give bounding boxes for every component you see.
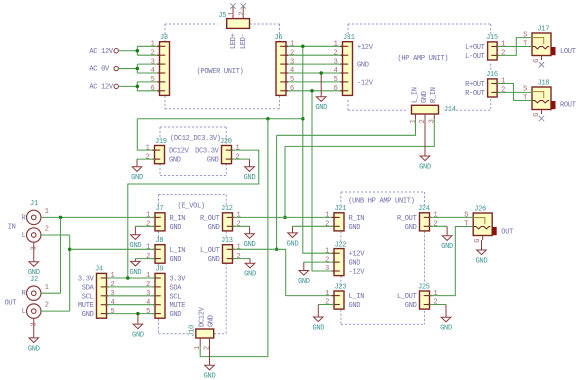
svg-text:J6: J6 xyxy=(275,34,283,42)
svg-text:J20: J20 xyxy=(220,138,232,146)
svg-text:J22: J22 xyxy=(335,241,347,249)
svg-text:J14: J14 xyxy=(444,106,456,114)
svg-text:ROUT: ROUT xyxy=(560,102,576,110)
svg-text:(DC12_DC3.3V): (DC12_DC3.3V) xyxy=(170,135,221,143)
svg-text:SDA: SDA xyxy=(170,284,183,292)
svg-text:GND: GND xyxy=(349,260,361,268)
svg-text:2: 2 xyxy=(146,153,150,161)
svg-text:J12: J12 xyxy=(221,205,233,213)
svg-text:G: G xyxy=(474,239,482,243)
svg-text:1: 1 xyxy=(334,41,338,49)
svg-text:GND: GND xyxy=(170,224,182,232)
svg-text:AC 12V: AC 12V xyxy=(89,84,114,92)
svg-text:GND: GND xyxy=(349,224,361,232)
svg-text:1: 1 xyxy=(146,212,150,220)
svg-text:J2: J2 xyxy=(30,276,38,284)
svg-text:1: 1 xyxy=(410,119,418,123)
svg-text:J23: J23 xyxy=(335,283,347,291)
svg-text:J13: J13 xyxy=(221,237,233,245)
svg-text:GND: GND xyxy=(244,241,256,249)
svg-text:2: 2 xyxy=(501,87,505,95)
svg-text:R_OUT: R_OUT xyxy=(200,215,220,223)
svg-text:3: 3 xyxy=(290,58,294,66)
svg-text:GND: GND xyxy=(204,373,216,380)
svg-text:J18: J18 xyxy=(538,80,550,88)
svg-text:1: 1 xyxy=(45,208,49,216)
svg-text:2: 2 xyxy=(204,346,212,350)
svg-text:GND: GND xyxy=(312,324,324,332)
svg-text:GND: GND xyxy=(170,256,182,264)
svg-text:GND: GND xyxy=(208,256,220,264)
svg-text:LOUT: LOUT xyxy=(560,48,576,56)
svg-text:4: 4 xyxy=(290,67,294,75)
svg-text:(POWER UNIT): (POWER UNIT) xyxy=(197,68,244,76)
svg-text:GND: GND xyxy=(440,325,452,333)
svg-text:1: 1 xyxy=(146,244,150,252)
svg-text:SCL: SCL xyxy=(82,293,94,301)
svg-text:1: 1 xyxy=(111,272,115,280)
svg-text:1: 1 xyxy=(501,78,505,86)
svg-text:J8: J8 xyxy=(156,237,164,245)
svg-text:GND: GND xyxy=(207,157,219,165)
svg-text:J10: J10 xyxy=(188,325,196,337)
svg-text:2: 2 xyxy=(236,153,240,161)
svg-text:GND: GND xyxy=(441,243,453,251)
svg-text:J9: J9 xyxy=(156,266,164,274)
svg-text:1: 1 xyxy=(290,41,294,49)
svg-text:OUT: OUT xyxy=(4,299,16,307)
svg-text:AC 12V: AC 12V xyxy=(89,48,114,56)
svg-text:1: 1 xyxy=(325,247,329,255)
svg-text:2: 2 xyxy=(325,256,329,264)
svg-text:J4: J4 xyxy=(95,266,103,274)
svg-text:DC12V: DC12V xyxy=(169,148,190,156)
svg-text:2: 2 xyxy=(146,221,150,229)
svg-text:AC 0V: AC 0V xyxy=(89,66,110,74)
svg-text:1: 1 xyxy=(325,212,329,220)
svg-text:J1: J1 xyxy=(30,200,38,208)
svg-text:J3: J3 xyxy=(160,34,168,42)
svg-text:2: 2 xyxy=(238,12,246,16)
svg-text:LED-: LED- xyxy=(240,33,248,49)
svg-text:T: T xyxy=(464,221,468,229)
svg-text:T: T xyxy=(523,41,527,49)
svg-text:R-OUT: R-OUT xyxy=(465,90,485,98)
svg-text:IN: IN xyxy=(8,223,16,231)
svg-text:GND: GND xyxy=(298,278,310,286)
svg-text:3.3V: 3.3V xyxy=(78,276,95,284)
svg-text:GND: GND xyxy=(315,104,327,112)
svg-text:2: 2 xyxy=(434,221,438,229)
svg-text:R_OUT: R_OUT xyxy=(397,215,417,223)
svg-text:3: 3 xyxy=(111,290,115,298)
svg-text:GND: GND xyxy=(131,174,143,182)
svg-text:5: 5 xyxy=(146,308,150,316)
svg-text:L-OUT: L-OUT xyxy=(465,53,485,61)
svg-text:2: 2 xyxy=(290,49,294,57)
svg-text:2: 2 xyxy=(501,50,505,58)
svg-text:2: 2 xyxy=(325,221,329,229)
svg-text:3: 3 xyxy=(146,290,150,298)
svg-text:R_IN: R_IN xyxy=(349,215,365,223)
svg-text:SDA: SDA xyxy=(82,284,95,292)
svg-text:GND: GND xyxy=(169,157,181,165)
svg-text:3: 3 xyxy=(30,323,38,327)
svg-text:1: 1 xyxy=(501,41,505,49)
svg-text:S: S xyxy=(464,212,468,220)
svg-text:L: L xyxy=(22,308,26,316)
svg-text:1: 1 xyxy=(237,212,241,220)
svg-text:GND: GND xyxy=(28,345,40,353)
svg-text:DC12V: DC12V xyxy=(198,306,206,327)
svg-text:L+OUT: L+OUT xyxy=(465,44,485,52)
svg-text:3: 3 xyxy=(30,246,38,250)
svg-text:GND: GND xyxy=(357,62,369,70)
svg-text:2: 2 xyxy=(45,302,49,310)
svg-text:6: 6 xyxy=(334,85,338,93)
svg-text:J11: J11 xyxy=(343,34,355,42)
svg-text:J16: J16 xyxy=(486,71,498,79)
svg-text:GND: GND xyxy=(287,240,299,248)
svg-text:5: 5 xyxy=(290,76,294,84)
svg-text:1: 1 xyxy=(434,212,438,220)
svg-text:-12V: -12V xyxy=(349,269,366,277)
svg-text:G: G xyxy=(533,59,541,63)
svg-text:L_OUT: L_OUT xyxy=(200,247,220,255)
svg-text:2: 2 xyxy=(146,281,150,289)
svg-text:J26: J26 xyxy=(474,206,486,214)
svg-text:1: 1 xyxy=(236,144,240,152)
svg-text:2: 2 xyxy=(111,281,115,289)
svg-text:2: 2 xyxy=(434,299,438,307)
svg-text:J25: J25 xyxy=(418,283,430,291)
svg-text:2: 2 xyxy=(45,226,49,234)
svg-text:GND: GND xyxy=(130,269,142,277)
svg-text:J21: J21 xyxy=(335,205,347,213)
svg-text:4: 4 xyxy=(334,67,338,75)
svg-text:R+OUT: R+OUT xyxy=(465,81,485,89)
svg-text:GND: GND xyxy=(82,311,94,319)
svg-text:1: 1 xyxy=(146,272,150,280)
svg-text:GND: GND xyxy=(132,332,144,340)
svg-text:-12V: -12V xyxy=(357,79,374,87)
svg-text:GND: GND xyxy=(405,302,417,310)
svg-text:(HP AMP UNIT): (HP AMP UNIT) xyxy=(398,55,449,63)
svg-text:1: 1 xyxy=(194,346,202,350)
svg-text:1: 1 xyxy=(45,284,49,292)
svg-text:GND: GND xyxy=(419,163,431,171)
svg-text:6: 6 xyxy=(290,85,294,93)
svg-text:J19: J19 xyxy=(155,138,167,146)
svg-text:J15: J15 xyxy=(486,34,498,42)
svg-text:T: T xyxy=(523,95,527,103)
svg-text:GND: GND xyxy=(405,224,417,232)
svg-text:L_IN: L_IN xyxy=(349,293,365,301)
svg-text:L_IN: L_IN xyxy=(170,247,186,255)
svg-text:3.3V: 3.3V xyxy=(170,276,187,284)
svg-text:3: 3 xyxy=(428,119,436,123)
svg-text:LED+: LED+ xyxy=(230,33,238,49)
svg-text:MUTE: MUTE xyxy=(170,302,186,310)
svg-text:R_IN: R_IN xyxy=(430,87,438,103)
svg-text:GND: GND xyxy=(244,271,256,279)
svg-text:MUTE: MUTE xyxy=(78,302,94,310)
svg-text:GND: GND xyxy=(170,311,182,319)
svg-text:OUT: OUT xyxy=(501,229,513,237)
svg-text:4: 4 xyxy=(151,67,155,75)
svg-text:3: 3 xyxy=(334,58,338,66)
svg-text:GND: GND xyxy=(421,91,429,103)
svg-text:1: 1 xyxy=(434,290,438,298)
svg-text:2: 2 xyxy=(237,221,241,229)
svg-text:(UNB HP AMP UNIT): (UNB HP AMP UNIT) xyxy=(348,198,414,206)
svg-text:GND: GND xyxy=(208,315,216,327)
svg-text:DC3.3V: DC3.3V xyxy=(195,148,220,156)
svg-text:5: 5 xyxy=(334,76,338,84)
svg-text:4: 4 xyxy=(146,299,150,307)
svg-text:2: 2 xyxy=(151,49,155,57)
svg-text:1: 1 xyxy=(228,12,236,16)
svg-text:2: 2 xyxy=(146,253,150,261)
svg-text:L_IN: L_IN xyxy=(411,87,419,103)
svg-text:(E_VOL): (E_VOL) xyxy=(178,203,205,211)
svg-text:5: 5 xyxy=(111,308,115,316)
svg-text:GND: GND xyxy=(208,224,220,232)
svg-text:GND: GND xyxy=(476,257,488,265)
svg-text:2: 2 xyxy=(334,49,338,57)
svg-text:1: 1 xyxy=(146,144,150,152)
svg-text:J7: J7 xyxy=(156,205,164,213)
svg-text:L: L xyxy=(22,232,26,240)
svg-text:S: S xyxy=(523,32,527,40)
svg-text:2: 2 xyxy=(237,253,241,261)
svg-text:J17: J17 xyxy=(537,26,549,34)
svg-text:GND: GND xyxy=(349,302,361,310)
svg-text:L_OUT: L_OUT xyxy=(397,293,417,301)
svg-text:5: 5 xyxy=(151,76,155,84)
svg-text:SCL: SCL xyxy=(170,293,182,301)
svg-text:3: 3 xyxy=(151,58,155,66)
svg-text:1: 1 xyxy=(237,244,241,252)
svg-text:J5: J5 xyxy=(219,12,227,20)
svg-text:2: 2 xyxy=(325,299,329,307)
svg-text:+12V: +12V xyxy=(349,251,366,259)
svg-text:1: 1 xyxy=(151,41,155,49)
svg-text:4: 4 xyxy=(111,299,115,307)
svg-text:3: 3 xyxy=(325,265,329,273)
svg-text:R_IN: R_IN xyxy=(170,215,186,223)
svg-text:+12V: +12V xyxy=(357,44,374,52)
svg-text:6: 6 xyxy=(151,85,155,93)
svg-text:GND: GND xyxy=(244,174,256,182)
svg-text:1: 1 xyxy=(325,290,329,298)
svg-text:J24: J24 xyxy=(418,205,430,213)
svg-text:2: 2 xyxy=(419,119,427,123)
